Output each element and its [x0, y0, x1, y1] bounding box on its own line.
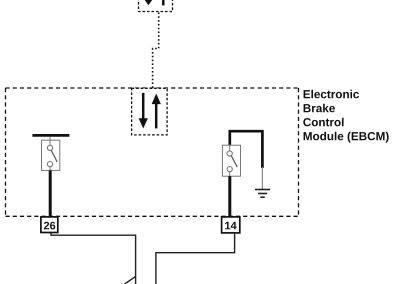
up arrow	[152, 94, 161, 105]
EBCM label line "Electronic"	[304, 90, 359, 99]
switch S1 (left, open)	[42, 137, 60, 171]
solenoid valve symbol (top, partially cut off)	[139, 0, 173, 12]
wire: pin 26 down, right and to bottom edge	[51, 233, 136, 284]
pin number "26"	[44, 222, 55, 230]
valve body (dashed)	[132, 88, 168, 135]
pin box	[41, 217, 58, 233]
Electronic Brake Control Module (EBCM) dashed outline	[6, 88, 299, 216]
solenoid valve symbol (inside EBCM)	[132, 88, 168, 135]
switch S2 (right, open)	[222, 145, 240, 176]
wire: switch S2 to pin 14	[228, 176, 231, 216]
lead from bus bar to top contact	[49, 137, 51, 146]
wire: switch S2 top to ground	[230, 131, 263, 168]
bottom contact	[47, 162, 52, 167]
up arrow shaft	[162, 0, 165, 5]
lead to top contact	[229, 145, 231, 151]
ground lead	[261, 167, 263, 189]
pin 26 of EBCM connector	[41, 217, 58, 233]
wire (dotted) between valve symbols	[153, 13, 159, 89]
EBCM label line "Module (EBCM)"	[304, 132, 389, 143]
EBCM label line "Brake"	[304, 104, 335, 113]
splice junction (diagonal)	[125, 276, 136, 284]
EBCM label line "Control"	[303, 118, 343, 127]
pin box	[222, 217, 240, 233]
lead from bottom contact	[49, 167, 51, 171]
switch blade	[51, 150, 57, 162]
wire: switch S1 to pin 26	[49, 170, 52, 216]
supply bus bar	[32, 134, 69, 137]
ground symbol	[255, 190, 270, 198]
pin 14 of EBCM connector	[222, 217, 240, 233]
wire: pin 14 down, left and to bottom edge	[156, 233, 235, 284]
switch body	[222, 145, 240, 176]
top contact	[227, 151, 232, 156]
switch body	[42, 140, 60, 170]
top contact	[47, 145, 52, 150]
pin number "14"	[225, 222, 236, 230]
lead from bottom contact	[229, 172, 231, 177]
down arrow	[142, 93, 145, 119]
switch blade	[231, 156, 237, 167]
valve body (dashed, clipped at top)	[139, 0, 173, 12]
down arrow head	[144, 0, 152, 5]
bottom contact	[227, 167, 232, 172]
